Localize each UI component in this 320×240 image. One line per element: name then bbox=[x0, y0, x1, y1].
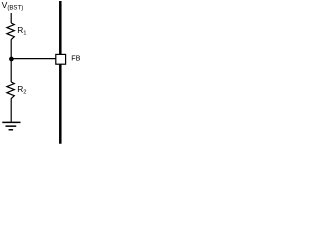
junction node dot bbox=[9, 57, 14, 62]
wire from V(BST) to R1 bbox=[10, 13, 12, 23]
resistor R1 bbox=[7, 23, 14, 40]
pin FB box bbox=[56, 54, 66, 64]
svg-text:V(BST): V(BST) bbox=[2, 0, 24, 12]
IC edge (thick vertical line) bbox=[59, 1, 62, 144]
wire from R1 to R2 through node bbox=[10, 40, 12, 82]
svg-text:R2: R2 bbox=[17, 84, 26, 96]
resistor R2 bbox=[7, 82, 14, 99]
ground bbox=[2, 122, 20, 129]
wire from node to FB pin bbox=[11, 58, 55, 60]
svg-text:R1: R1 bbox=[17, 25, 26, 37]
wire from R2 to ground bbox=[10, 99, 12, 122]
svg-text:FB: FB bbox=[71, 53, 80, 62]
